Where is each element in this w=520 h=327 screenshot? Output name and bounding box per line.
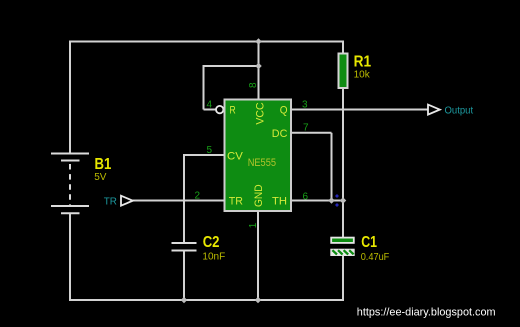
svg-text:TH: TH — [272, 196, 287, 208]
junction node C2/ground rail — [181, 297, 188, 304]
input port arrow TR — [121, 196, 133, 206]
resistor R1 — [339, 54, 348, 89]
svg-text:10nF: 10nF — [202, 252, 225, 263]
wire DC (pin 7) horizontal — [292, 132, 332, 134]
svg-text:DC: DC — [272, 128, 288, 140]
svg-text:https://ee-diary.blogspot.com: https://ee-diary.blogspot.com — [357, 306, 496, 318]
inversion bubble on pin 4 (R) — [216, 106, 223, 113]
wire Q output (pin 3) — [292, 109, 429, 111]
svg-text:GND: GND — [253, 184, 265, 207]
wire TR input (pin 2) — [133, 200, 225, 202]
battery B1 — [51, 154, 89, 214]
node marker blue lower — [335, 203, 339, 207]
capacitor C1 (polarized) — [331, 238, 354, 256]
svg-text:NE555: NE555 — [248, 157, 276, 169]
wire reset link horizontal — [204, 65, 259, 67]
svg-text:5V: 5V — [94, 172, 107, 183]
junction node GND/ground rail — [255, 297, 262, 304]
svg-text:4: 4 — [207, 100, 213, 111]
wire left rail upper (battery + side) — [69, 41, 71, 154]
junction node TH/R1/C1 — [340, 197, 347, 204]
wire C2 bottom lead — [183, 251, 185, 301]
wire VCC drop to pin 8 — [258, 42, 260, 100]
svg-text:CV: CV — [227, 151, 243, 163]
output port arrow — [428, 105, 440, 115]
svg-text:Q: Q — [280, 105, 288, 117]
wire reset stub to bubble — [204, 109, 216, 111]
wire CV (pin 5) horizontal — [184, 154, 225, 156]
wire top rail — [70, 41, 343, 43]
wire GND (pin 1) drop — [257, 211, 259, 300]
junction node reset/VCC — [255, 63, 262, 70]
wire reset link vertical — [203, 65, 205, 110]
capacitor C2 — [172, 243, 197, 251]
svg-text:10k: 10k — [354, 69, 371, 80]
junction node on top rail — [255, 38, 262, 45]
svg-text:TR: TR — [104, 196, 117, 207]
svg-text:R1: R1 — [354, 54, 372, 71]
svg-text:8: 8 — [248, 82, 259, 88]
wire bottom rail — [69, 299, 343, 301]
svg-text:C1: C1 — [361, 234, 377, 251]
wire TH (pin 6) — [292, 200, 343, 202]
svg-text:0.47uF: 0.47uF — [361, 252, 390, 263]
wire R1 bottom lead down to TH node — [342, 89, 344, 238]
svg-text:B1: B1 — [95, 156, 112, 173]
wire C1 bottom lead — [342, 256, 344, 302]
svg-text:R: R — [230, 105, 236, 117]
svg-text:VCC: VCC — [254, 102, 266, 124]
wire R1 top lead — [342, 41, 344, 54]
IC U1 NE555 body — [225, 100, 292, 212]
wire CV drop to C2 — [183, 154, 185, 243]
svg-text:Output: Output — [445, 105, 474, 116]
wire left rail lower (battery - side) — [69, 214, 71, 302]
svg-text:C2: C2 — [203, 234, 220, 251]
junction node DC/TH — [328, 197, 335, 204]
svg-text:TR: TR — [229, 196, 243, 208]
node marker blue upper — [335, 194, 339, 198]
wire DC drop to TH node — [331, 133, 333, 201]
